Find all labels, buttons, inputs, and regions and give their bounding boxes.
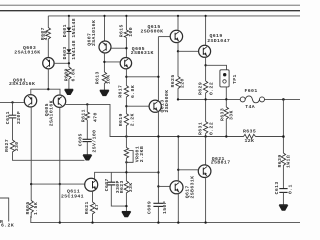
svg-text:R635: R635: [243, 128, 256, 134]
resistor R607: [40, 27, 51, 40]
node input junction C611: [11, 101, 13, 103]
svg-text:12K: 12K: [245, 138, 255, 144]
capacitor C613: [274, 181, 293, 194]
wire Q607 collector to supply: [104, 16, 106, 41]
svg-text:2SC1941: 2SC1941: [61, 194, 84, 200]
wire supply feed horizontal: [48, 15, 300, 17]
wire Q613 collector up: [157, 37, 159, 101]
wire Q617 emitter to rail: [177, 193, 179, 222]
node zobel junction: [282, 135, 285, 138]
svg-text:R611: R611: [80, 109, 86, 122]
wire node to Q613 collector column: [126, 76, 158, 78]
wire C613 to ground: [282, 192, 284, 204]
node Q621 base junction: [177, 169, 179, 171]
svg-text:R609: R609: [63, 68, 69, 81]
node Q617 collector bus junction: [177, 135, 179, 137]
svg-text:D603: D603: [62, 46, 68, 59]
wire VR601 to R623: [125, 158, 127, 181]
svg-text:F601: F601: [245, 88, 258, 94]
wire R613 to ground: [103, 84, 105, 91]
transistor Q601: [9, 77, 37, 107]
svg-text:6.8K: 6.8K: [130, 85, 136, 98]
svg-text:25V/100: 25V/100: [92, 130, 98, 153]
svg-text:2SD600K: 2SD600K: [164, 90, 170, 113]
svg-text:D601: D601: [62, 24, 68, 37]
node E VAS junction: [125, 105, 127, 107]
svg-text:33K: 33K: [128, 182, 134, 192]
wire Q619 base: [178, 50, 199, 52]
resistor R629: [198, 81, 215, 95]
node Q617 base junction: [157, 185, 159, 187]
diode D601 1N4148: [62, 18, 77, 38]
node C607 R623 junction: [125, 205, 127, 207]
wire R627 to ground bus: [13, 152, 85, 161]
svg-text:R605: R605: [25, 201, 31, 214]
wire C605 to ground: [86, 142, 88, 155]
node output junction R629 R631: [204, 98, 206, 100]
node emitter rail junction: [47, 88, 49, 90]
svg-text:2SA1016K: 2SA1016K: [91, 20, 97, 46]
resistor R611: [80, 109, 98, 122]
wire emitter rail diff pair: [31, 89, 60, 95]
svg-text:TP1: TP1: [232, 74, 238, 84]
svg-text:R613: R613: [95, 71, 101, 84]
node Q621 emitter rail junction: [204, 221, 206, 223]
svg-text:330: 330: [14, 141, 20, 151]
capacitor C611: [5, 111, 22, 124]
ground C605: [83, 155, 91, 160]
svg-text:150P: 150P: [162, 201, 168, 214]
svg-text:2SB817: 2SB817: [211, 159, 231, 165]
wire R611 to C605: [86, 120, 88, 139]
transistor Q619: [199, 33, 231, 57]
node bus junction R631: [204, 135, 206, 137]
wire R639 to C613: [282, 166, 284, 189]
node Q613 collector junction: [157, 76, 159, 78]
node R619 column top: [125, 135, 127, 137]
wire Q615 emitter down: [177, 42, 179, 76]
node Q617 emitter rail junction: [177, 221, 179, 223]
wire R633 to bus: [225, 119, 227, 137]
transistor Q603: [14, 45, 54, 69]
node Q611 base wire junction: [30, 183, 32, 185]
node R617 top junction: [125, 76, 127, 78]
svg-text:R631: R631: [198, 122, 204, 135]
wire C607 top: [110, 172, 112, 182]
svg-text:2SB631K: 2SB631K: [131, 50, 154, 56]
svg-text:47: 47: [94, 204, 100, 211]
node supply taps: [68, 15, 70, 17]
transistor Q605 second: [44, 95, 66, 126]
node Q613 emitter bus junction: [157, 135, 159, 137]
node feedback junction R611: [86, 103, 88, 105]
svg-text:220P: 220P: [16, 111, 22, 124]
wire Q605 second base feedback: [64, 103, 67, 105]
diode D603 1N4148: [62, 40, 77, 60]
svg-text:2SD1047: 2SD1047: [207, 38, 230, 44]
node D base junction: [125, 47, 127, 49]
wire R607 top: [47, 16, 49, 28]
node V- bottom rail: [31, 216, 300, 223]
node R621 rail junction: [91, 221, 93, 223]
wire Q621 base: [178, 169, 198, 171]
wire R629 to output: [205, 93, 207, 122]
wire Q619 collector to supply: [205, 16, 207, 46]
wire D601 to D603: [68, 32, 70, 50]
resistor R621: [84, 201, 100, 214]
svg-text:2.2K: 2.2K: [130, 113, 136, 126]
fuse F601 T4A: [240, 88, 264, 110]
svg-text:R617: R617: [118, 85, 124, 98]
wire Q619 emitter to R629: [205, 57, 207, 81]
node Q619 base junction: [177, 50, 179, 52]
svg-text:2SA1016K: 2SA1016K: [14, 49, 40, 55]
capacitor C609: [146, 201, 168, 214]
svg-text:R: R: [0, 219, 3, 225]
wire R605 top: [30, 199, 32, 202]
node C609 rail junction: [157, 221, 159, 223]
wire left edge feedback stub: [0, 198, 9, 222]
node V+ rail upper: [0, 4, 300, 6]
wire Q603 base to diode string: [54, 62, 69, 64]
wire Q617 collector to bus: [177, 137, 179, 182]
node R625 corner junction: [177, 98, 179, 100]
resistor R639: [277, 153, 291, 168]
svg-text:R619: R619: [118, 113, 124, 126]
resistor R617: [118, 85, 137, 98]
svg-text:0.22: 0.22: [208, 82, 214, 95]
node TP1 tap junction: [204, 64, 206, 66]
wire Q603 collector stem: [47, 69, 49, 89]
wire Q605 second collector down: [59, 107, 61, 222]
svg-text:0.1: 0.1: [287, 184, 293, 194]
wire R611 top: [86, 104, 88, 112]
transistor Q611: [61, 178, 98, 199]
resistor R609: [63, 67, 76, 82]
svg-text:R625: R625: [170, 74, 176, 87]
svg-text:C609: C609: [146, 201, 152, 214]
wire C609 to rail: [157, 206, 159, 222]
svg-text:C611: C611: [5, 111, 11, 124]
wire R617 to node E: [125, 97, 127, 114]
wire R605 to rail corner: [30, 212, 32, 218]
node bus junction R633: [225, 135, 227, 137]
svg-text:R615: R615: [119, 24, 125, 37]
capacitor C607: [104, 178, 121, 193]
wire R621 to rail: [92, 214, 94, 223]
resistor R627: [4, 139, 20, 152]
wire Q605 emitter to R617: [125, 69, 127, 86]
ground C613: [279, 205, 287, 210]
svg-text:470: 470: [93, 112, 99, 122]
resistor R623: [119, 180, 134, 193]
ground R613: [100, 90, 109, 95]
wire output horizontal: [178, 98, 240, 100]
wire R607 to Q603: [47, 39, 49, 58]
svg-text:10K: 10K: [106, 74, 112, 84]
svg-text:C605: C605: [77, 133, 83, 146]
svg-text:C607: C607: [104, 178, 110, 191]
node VR601 wiper junction: [125, 161, 127, 163]
wire TP1 to fuse node: [225, 87, 227, 107]
resistor R633: [220, 107, 235, 121]
svg-text:2SA1016K: 2SA1016K: [9, 81, 35, 87]
resistor R619: [118, 113, 135, 126]
wire R615 feed: [125, 16, 127, 30]
transistor Q607: [86, 20, 111, 53]
node fuse junction: [225, 98, 227, 100]
svg-text:R621: R621: [84, 201, 90, 214]
wire D603 to R609: [68, 53, 70, 67]
trimmer VR601: [124, 146, 145, 162]
wire Q615 base: [158, 36, 170, 38]
svg-text:1W1Ω: 1W1Ω: [286, 155, 292, 168]
svg-text:2.2KB: 2.2KB: [139, 146, 145, 162]
resistor R613: [95, 71, 112, 84]
transistor Q605: [120, 46, 154, 69]
node Q607 emitter junction: [103, 61, 105, 63]
wire Q621 emitter to rail: [205, 178, 207, 223]
svg-text:C613: C613: [274, 181, 280, 194]
svg-text:R627: R627: [4, 139, 10, 152]
wire Q617 base: [158, 185, 170, 187]
node output column junction: [282, 98, 285, 101]
svg-text:220: 220: [179, 78, 185, 88]
resistor R625: [170, 74, 185, 88]
resistor R635: [243, 128, 256, 143]
transistor Q617: [170, 176, 195, 199]
wire R615 to Q605: [125, 38, 127, 58]
ground R609: [65, 89, 73, 94]
wire Q615 collector to supply: [177, 16, 179, 31]
wire mid bus right segment: [256, 136, 284, 138]
wire R623 to ground: [125, 193, 127, 212]
wire mid bus left segment: [66, 104, 244, 136]
svg-text:T4A: T4A: [245, 104, 255, 110]
node collector load junction: [157, 171, 159, 173]
transistor Q613: [149, 90, 170, 113]
node bias column crossing: [125, 171, 127, 173]
ground R623: [122, 212, 131, 217]
svg-text:1N4148: 1N4148: [71, 18, 77, 38]
svg-text:1N4148: 1N4148: [71, 40, 77, 60]
svg-text:R639: R639: [277, 154, 283, 167]
wire Q611 emitter to R621: [92, 191, 94, 202]
wire diode column: [68, 16, 70, 28]
wire Q611 collector: [95, 172, 159, 178]
wire Q621 collector to bus: [205, 137, 207, 166]
svg-text:6.8K: 6.8K: [70, 68, 76, 81]
wire R619 to VR601: [125, 125, 127, 147]
wire input from edge: [0, 101, 24, 103]
svg-text:2SA1016K: 2SA1016K: [48, 100, 54, 126]
wire R609 to ground: [68, 79, 70, 89]
wire C607 bottom loop: [111, 185, 126, 206]
svg-text:R623: R623: [119, 180, 125, 193]
wire R631 to bus: [205, 134, 207, 137]
test point TP1: [220, 70, 238, 87]
wire C611 to R627: [12, 118, 14, 140]
node V+ rail lower: [0, 10, 300, 12]
capacitor C605 electrolytic: [77, 130, 97, 153]
svg-text:2SB631K: 2SB631K: [189, 176, 195, 199]
svg-text:1.5K: 1.5K: [33, 202, 39, 215]
wire Q607 emitter down: [103, 53, 105, 72]
wire R625 to output node: [177, 89, 179, 100]
resistor R615: [119, 24, 134, 37]
transistor Q621: [198, 156, 230, 178]
wire C611 top: [12, 102, 14, 115]
wire Q601 collector down: [30, 107, 32, 200]
wire Q607 emitter to Q605 base: [104, 61, 120, 63]
wire TP1 feed: [206, 65, 227, 70]
node diff collector junction: [59, 183, 61, 185]
svg-text:2SD600K: 2SD600K: [141, 28, 164, 34]
resistor R631: [198, 122, 215, 136]
svg-text:100: 100: [128, 27, 134, 37]
resistor R605: [25, 201, 39, 216]
svg-text:470: 470: [43, 30, 49, 40]
wire Q613 emitter down: [157, 112, 159, 204]
wire output column down: [282, 99, 284, 153]
svg-text:R633: R633: [220, 108, 226, 121]
node Q603 base junction: [68, 62, 70, 64]
node rail junction: [59, 221, 61, 223]
svg-text:33K: 33K: [229, 110, 235, 120]
svg-text:R629: R629: [198, 82, 204, 95]
wire Q611 base: [31, 183, 85, 185]
transistor Q615: [141, 24, 183, 42]
wire node E to Q613 base: [126, 105, 149, 107]
wire Q607 base to node D: [111, 47, 126, 49]
svg-text:0.22: 0.22: [208, 122, 214, 135]
